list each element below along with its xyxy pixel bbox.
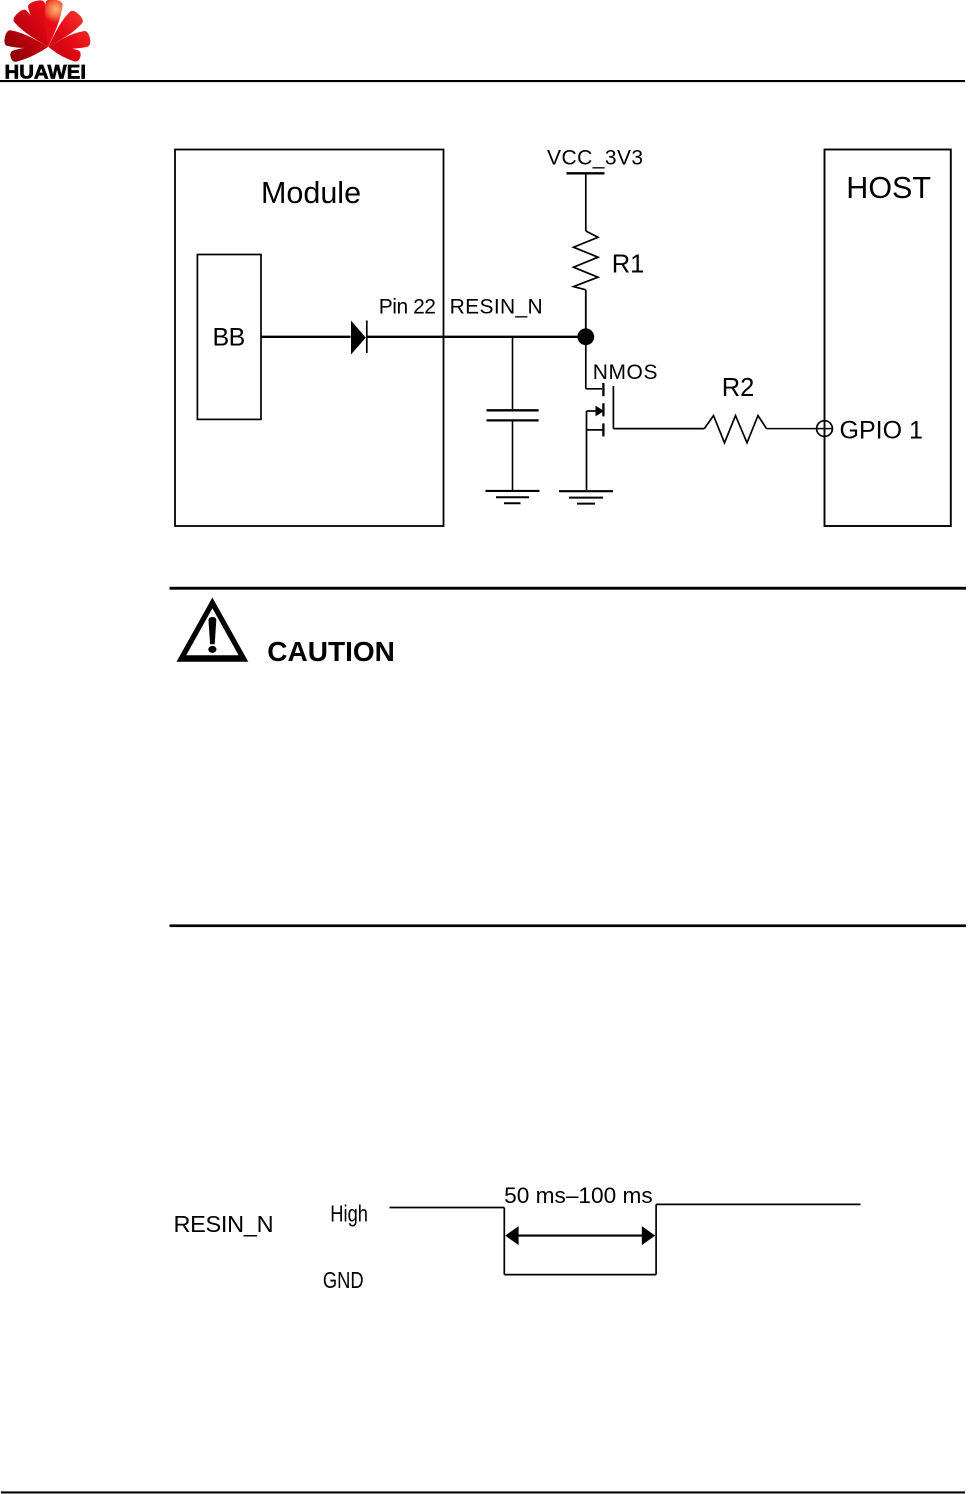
svg-text:BB: BB xyxy=(213,324,245,352)
svg-text:High: High xyxy=(330,1202,368,1228)
svg-text:RESIN_N: RESIN_N xyxy=(450,296,543,319)
svg-text:NMOS: NMOS xyxy=(593,361,658,384)
svg-text:GPIO 1: GPIO 1 xyxy=(840,416,923,444)
svg-text:HOST: HOST xyxy=(846,171,931,205)
svg-text:R1: R1 xyxy=(612,251,644,279)
svg-text:CAUTION: CAUTION xyxy=(267,636,395,667)
svg-text:GND: GND xyxy=(323,1268,364,1294)
svg-text:RESIN_N: RESIN_N xyxy=(174,1211,274,1237)
svg-text:Pin 22: Pin 22 xyxy=(379,296,436,319)
svg-text:50 ms–100 ms: 50 ms–100 ms xyxy=(504,1183,653,1208)
svg-text:R2: R2 xyxy=(722,374,754,402)
svg-text:VCC_3V3: VCC_3V3 xyxy=(547,147,644,170)
svg-text:Module: Module xyxy=(261,176,361,210)
